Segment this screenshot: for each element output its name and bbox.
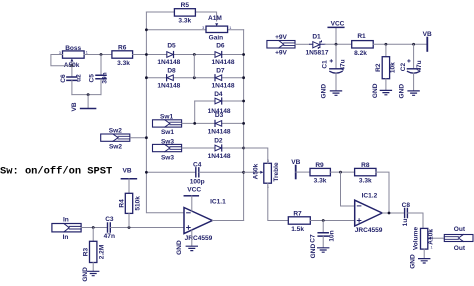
wire In to C3 <box>81 227 107 229</box>
svg-text:3.3k: 3.3k <box>314 177 327 184</box>
potentiometer Treble A50k (vertical) <box>244 159 280 189</box>
diode D1 1N5817 (schottky) <box>306 33 329 56</box>
wire R6 to inverting column <box>133 54 147 56</box>
ground below C7 <box>318 248 329 252</box>
svg-text:u2: u2 <box>76 74 83 82</box>
wire diode row 2 <box>146 77 243 79</box>
svg-text:10k: 10k <box>390 62 397 73</box>
junction node R9/R8 to - input <box>339 171 342 174</box>
svg-text:In: In <box>63 216 69 223</box>
wire diode row 1 <box>146 54 243 56</box>
junction node output/feedback <box>388 212 391 215</box>
svg-text:GND: GND <box>310 244 317 259</box>
wire R7 to + input <box>310 220 354 222</box>
capacitor C7 10n (vertical) <box>309 221 335 248</box>
wire right feedback column <box>243 30 245 221</box>
svg-text:GND: GND <box>321 84 328 99</box>
svg-text:+9V: +9V <box>275 34 287 41</box>
svg-text:VCC: VCC <box>187 187 201 194</box>
wire D1 to R1 <box>325 43 352 45</box>
svg-text:D6: D6 <box>216 42 225 49</box>
svg-text:C2: C2 <box>400 62 407 71</box>
connector Out <box>444 226 473 252</box>
junction node row2 right <box>242 76 245 79</box>
VB rail top right <box>423 31 432 51</box>
wire R9 to R8 <box>330 171 354 173</box>
svg-text:C5: C5 <box>89 74 96 83</box>
svg-text:C6: C6 <box>60 74 67 83</box>
svg-text:47u: 47u <box>339 59 346 70</box>
junction node C4 left <box>145 171 148 174</box>
svg-text:1N5817: 1N5817 <box>306 50 329 57</box>
svg-text:R9: R9 <box>315 162 324 169</box>
svg-text:VB: VB <box>291 159 300 166</box>
svg-text:Sw2: Sw2 <box>109 143 122 150</box>
svg-text:JRC4559: JRC4559 <box>355 227 383 234</box>
op-amp U IC1.1 JRC4559 <box>184 199 226 242</box>
svg-text:1N4148: 1N4148 <box>208 153 231 160</box>
svg-text:R6: R6 <box>118 44 127 51</box>
wire left feedback column <box>146 12 184 213</box>
svg-text:1N4148: 1N4148 <box>157 83 180 90</box>
svg-text:GND: GND <box>410 254 417 269</box>
svg-text:Volume: Volume <box>413 227 420 251</box>
junction node Sw1/D4 <box>193 122 196 125</box>
svg-text:3: 3 <box>202 26 204 30</box>
junction node wiper/pin3 <box>71 64 74 67</box>
VCC rail above IC1.1 <box>184 187 201 211</box>
ground below R3 <box>88 271 99 275</box>
capacitor C8 1u <box>402 202 411 226</box>
svg-text:C1: C1 <box>321 60 328 69</box>
connector Sw1 <box>153 114 182 137</box>
svg-text:C8: C8 <box>402 202 411 209</box>
resistor R9 3.3k <box>310 162 330 184</box>
svg-text:R7: R7 <box>293 210 302 217</box>
svg-text:Sw3: Sw3 <box>161 154 174 161</box>
capacitor C3 47n <box>104 216 115 240</box>
svg-text:1.5k: 1.5k <box>291 226 304 233</box>
svg-text:10n: 10n <box>329 230 336 241</box>
svg-text:+9V: +9V <box>275 49 287 56</box>
wire C3 to op-amp + input <box>111 227 185 229</box>
svg-text:GND: GND <box>82 267 89 282</box>
svg-text:IC1.1: IC1.1 <box>210 199 226 206</box>
potentiometer Gain A1M <box>202 15 231 41</box>
capacitor C5 39n (vertical) <box>89 55 109 95</box>
svg-text:1: 1 <box>431 246 433 250</box>
svg-text:C7: C7 <box>309 234 316 243</box>
svg-text:VCC: VCC <box>331 20 345 27</box>
svg-text:VB: VB <box>123 167 132 174</box>
svg-text:Out: Out <box>454 226 466 233</box>
svg-text:510k: 510k <box>134 196 141 211</box>
potentiometer Volume A10k (vertical) <box>413 227 445 251</box>
svg-text:D3: D3 <box>215 112 224 119</box>
svg-text:D4: D4 <box>214 91 223 98</box>
svg-text:1N4148: 1N4148 <box>212 59 235 66</box>
wire +9V to D1 <box>295 43 310 45</box>
diode D8 1N4148 (reversed) <box>157 68 180 90</box>
ground below volume <box>419 259 430 263</box>
diode D6 1N4148 <box>212 42 235 66</box>
junction node row1 right <box>242 53 245 56</box>
wire treble top to D2 node <box>244 148 268 163</box>
ground below IC1.1 <box>176 230 197 255</box>
wire top feedback row <box>146 12 216 21</box>
svg-text:47u: 47u <box>416 60 423 71</box>
wire Sw1 to D3 <box>182 122 244 124</box>
svg-text:A50k: A50k <box>252 163 259 179</box>
svg-text:R5: R5 <box>181 2 190 9</box>
resistor R4 510k (vertical) <box>118 179 141 228</box>
svg-text:D2: D2 <box>214 138 223 145</box>
wire D4 drop to Sw1 row <box>194 101 196 123</box>
svg-text:D8: D8 <box>167 68 176 75</box>
resistor R5 3.3k <box>174 2 195 24</box>
diode D4 1N4148 <box>208 91 231 115</box>
svg-text:Treble: Treble <box>273 162 280 182</box>
wire mid column joining row1/row2 <box>193 55 195 78</box>
op-amp U IC1.2 JRC4559 <box>355 192 383 234</box>
svg-text:IC1.2: IC1.2 <box>362 192 378 199</box>
VB rail at R9 <box>291 159 300 178</box>
svg-text:1N4148: 1N4148 <box>208 128 231 135</box>
junction node C5 tap <box>100 53 103 56</box>
wire IC1.1 output to feedback column <box>212 220 243 222</box>
resistor R2 10k (vertical) <box>375 44 396 90</box>
svg-text:In: In <box>63 234 69 241</box>
wire Boss pin3 loop to wiper <box>51 55 72 66</box>
diode D2 1N4148 <box>208 138 231 160</box>
capacitor C4 100p <box>146 161 243 185</box>
wire C8 to volume pot <box>408 213 423 228</box>
svg-text:Sw1: Sw1 <box>161 129 174 136</box>
junction node gain row left <box>145 28 148 31</box>
VB rail above R4 <box>121 167 136 178</box>
svg-text:JRC4559: JRC4559 <box>185 235 213 242</box>
svg-text:VB: VB <box>423 31 432 38</box>
svg-text:R8: R8 <box>361 162 370 169</box>
svg-text:Sw1: Sw1 <box>160 114 173 121</box>
diode D7 1N4148 (reversed) <box>212 68 235 90</box>
junction node C4 right / treble wiper <box>242 171 245 174</box>
svg-text:1: 1 <box>86 51 88 55</box>
svg-text:R4: R4 <box>118 199 125 208</box>
junction node C7 tap <box>322 219 325 222</box>
connector Sw3 <box>153 138 182 161</box>
svg-text:GND: GND <box>372 83 379 98</box>
svg-text:8.2k: 8.2k <box>354 50 367 57</box>
svg-text:Sw: on/off/on SPST: Sw: on/off/on SPST <box>0 166 112 178</box>
ground below C1 <box>330 91 341 95</box>
diode D5 1N4148 <box>157 42 180 66</box>
svg-text:39n: 39n <box>101 72 108 83</box>
junction node R4 bottom <box>128 226 131 229</box>
svg-text:1N4148: 1N4148 <box>157 59 180 66</box>
svg-text:1u: 1u <box>402 219 409 227</box>
resistor R6 3.3k <box>112 44 133 67</box>
svg-text:A1M: A1M <box>208 15 222 22</box>
wire volume bottom to ground <box>423 249 425 258</box>
junction node row1 left <box>145 53 148 56</box>
svg-text:D7: D7 <box>216 68 225 75</box>
wire R8 to output column <box>376 172 389 213</box>
svg-text:Sw3: Sw3 <box>161 138 174 145</box>
svg-text:1N4148: 1N4148 <box>212 83 235 90</box>
svg-text:Gain: Gain <box>209 35 224 42</box>
junction node at D1/R1/C1 <box>335 43 338 46</box>
connector Sw2 <box>101 128 130 151</box>
resistor R7 1.5k <box>288 210 310 233</box>
wire C6/C5 bottoms joined <box>72 94 101 96</box>
svg-text:47n: 47n <box>104 233 115 240</box>
svg-text:D1: D1 <box>312 33 321 40</box>
svg-text:C4: C4 <box>193 161 202 168</box>
junction node D2 right / treble tap <box>242 147 245 150</box>
wire Sw3 to D2 <box>182 147 244 149</box>
wire treble bottom to R7 <box>268 183 289 220</box>
svg-text:Out: Out <box>454 245 466 252</box>
svg-text:R2: R2 <box>375 63 382 72</box>
junction node VB stub <box>87 93 90 96</box>
svg-text:GND: GND <box>398 84 405 99</box>
svg-text:100p: 100p <box>190 178 205 185</box>
capacitor C2 47u (polarized) <box>400 44 423 90</box>
svg-text:R3: R3 <box>83 247 90 256</box>
potentiometer Boss A50k <box>59 45 88 69</box>
svg-text:1: 1 <box>229 26 231 30</box>
svg-text:VB: VB <box>71 102 78 111</box>
ground below C2 <box>408 91 419 95</box>
svg-text:3: 3 <box>431 228 433 232</box>
wire R9/R8 node down to - input <box>341 172 355 206</box>
junction node R3 tap <box>92 226 95 229</box>
connector In <box>52 216 81 241</box>
svg-text:D5: D5 <box>167 42 176 49</box>
svg-text:2.2M: 2.2M <box>99 244 106 259</box>
svg-text:C3: C3 <box>105 216 114 223</box>
junction node row2 left <box>145 76 148 79</box>
resistor R1 8.2k <box>352 33 374 57</box>
junction node row1 mid <box>193 53 196 56</box>
VB rail below caps <box>71 95 96 112</box>
wire VB to R9 <box>296 171 310 173</box>
resistor R3 2.2M (vertical) <box>83 228 106 272</box>
svg-text:3.3k: 3.3k <box>178 17 191 24</box>
svg-text:R1: R1 <box>357 33 366 40</box>
junction node C2 tap <box>412 43 415 46</box>
wire IC1.2 output to C8 <box>382 212 404 214</box>
svg-text:3.3k: 3.3k <box>117 60 130 67</box>
svg-text:Boss: Boss <box>65 45 81 52</box>
wire Sw2 to column <box>130 137 147 139</box>
wire D4 row <box>195 100 244 102</box>
junction node R2 tap <box>385 43 388 46</box>
VCC rail <box>328 20 344 44</box>
connector +9V <box>267 34 295 57</box>
svg-text:3.3k: 3.3k <box>359 177 372 184</box>
resistor R8 3.3k <box>355 162 376 184</box>
capacitor C1 47u (polarized) <box>321 44 346 90</box>
capacitor C6 u2 (vertical) <box>60 66 83 95</box>
svg-text:GND: GND <box>176 240 183 255</box>
ground below R2 <box>380 90 391 94</box>
wire R1 to VB rail <box>373 43 426 45</box>
wire Boss pin1 to R6 <box>84 54 112 56</box>
svg-text:Sw2: Sw2 <box>109 128 122 135</box>
junction node D3 right <box>242 122 245 125</box>
wire Gain pot row <box>146 29 243 31</box>
junction node Sw2 tap <box>145 136 148 139</box>
diode D3 1N4148 (reversed) <box>208 112 231 135</box>
junction node D4 right <box>242 100 245 103</box>
junction node row2 mid <box>193 76 196 79</box>
